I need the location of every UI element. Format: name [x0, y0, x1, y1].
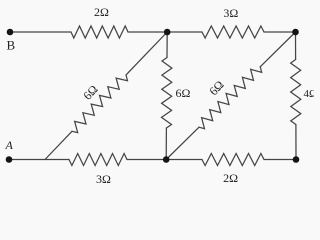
svg-text:3Ω: 3Ω — [96, 172, 111, 186]
svg-text:6Ω: 6Ω — [176, 86, 191, 100]
svg-text:4Ω: 4Ω — [304, 88, 315, 100]
svg-text:6Ω: 6Ω — [80, 82, 100, 103]
svg-text:A: A — [5, 138, 14, 152]
svg-text:2Ω: 2Ω — [223, 171, 238, 185]
svg-text:6Ω: 6Ω — [206, 78, 226, 99]
svg-text:2Ω: 2Ω — [94, 5, 109, 19]
svg-text:3Ω: 3Ω — [223, 6, 238, 20]
svg-text:B: B — [7, 38, 16, 53]
